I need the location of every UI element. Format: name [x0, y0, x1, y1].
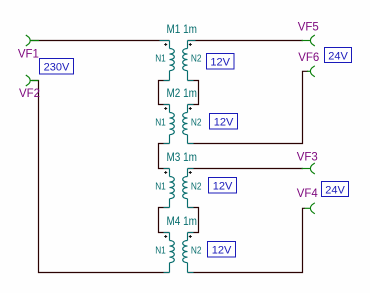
polarity mark + M4 N2: [189, 235, 192, 238]
svg-text:VF4: VF4: [297, 186, 318, 200]
lead stub M3 N2 VF3 wire: [188, 168, 194, 170]
svg-text:M2 1m: M2 1m: [167, 88, 198, 100]
lead stubs M2 bottom: [164, 143, 194, 145]
svg-text:12V: 12V: [213, 181, 233, 193]
svg-text:N2: N2: [191, 246, 202, 257]
svg-text:VF5: VF5: [298, 19, 319, 33]
value 24V (VF5-VF6): [325, 48, 352, 63]
polarity mark + M4 N1: [164, 235, 167, 238]
voltage pin VF2: [26, 75, 30, 86]
lead stub M1 N1 top: [160, 40, 170, 42]
svg-text:N1: N1: [155, 118, 166, 129]
lead stub M1 N2 top: [188, 40, 196, 42]
wire N1 jog M3 to M4 left: [159, 208, 170, 233]
svg-text:N1: N1: [155, 182, 166, 193]
svg-text:N1: N1: [155, 246, 166, 257]
wire VF1 to M1 N1 top: [31, 40, 170, 42]
voltage pin VF4: [310, 203, 314, 214]
value 230V (source VF1-VF2): [40, 59, 74, 75]
wire M1 N2 top to VF5: [188, 40, 304, 42]
wire VF2 riser down and bottom run to M4 N1: [32, 81, 170, 273]
value 12V (M3 secondary): [209, 178, 237, 194]
lead stubs M3 bottom: [164, 207, 194, 209]
wire M4 N2 bottom to VF4 riser: [188, 208, 306, 272]
svg-text:12V: 12V: [214, 117, 234, 129]
transformer M1 secondary winding N2: [187, 41, 189, 49]
voltage pin VF1: [26, 35, 30, 46]
svg-text:N2: N2: [191, 118, 202, 129]
polarity mark + M3 N2: [189, 171, 192, 174]
polarity mark + M2 N2: [189, 107, 192, 110]
wire N2 jog M3 to M4 right: [188, 208, 199, 233]
polarity mark + M1 N2: [189, 43, 192, 46]
transformer M3 primary winding N1: [169, 169, 171, 177]
svg-text:M3 1m: M3 1m: [167, 152, 198, 164]
voltage pin VF3: [310, 163, 314, 174]
wire N2 jog M1 to M2 right: [188, 81, 199, 105]
svg-text:M4 1m: M4 1m: [167, 216, 198, 228]
polarity mark + M2 N1: [164, 107, 167, 110]
polarity mark + M1 N1: [164, 43, 167, 46]
lead stubs M4 bottom: [164, 272, 194, 274]
lead stubs M1 bottom: [164, 80, 194, 82]
transformer M1 primary winding N1: [169, 41, 171, 49]
svg-text:N2: N2: [191, 54, 202, 65]
voltage pin VF5: [310, 35, 314, 46]
value 12V (M1 secondary): [207, 54, 235, 70]
svg-text:N2: N2: [191, 182, 202, 193]
svg-text:VF6: VF6: [298, 50, 319, 64]
svg-text:24V: 24V: [325, 184, 345, 196]
svg-text:VF3: VF3: [297, 149, 318, 163]
wire M3 N2 top to VF3: [188, 168, 304, 170]
svg-text:VF2: VF2: [19, 86, 40, 100]
wire N1 jog M1 to M2 left: [159, 81, 170, 105]
value 24V (VF3-VF4): [322, 182, 349, 197]
svg-text:M1 1m: M1 1m: [167, 24, 198, 36]
lead stubs M4 top: [164, 232, 194, 234]
lead stubs M3 top: [164, 168, 194, 170]
svg-text:N1: N1: [155, 54, 166, 65]
svg-text:24V: 24V: [328, 50, 348, 62]
transformer M4 primary winding N1: [169, 233, 171, 241]
svg-text:VF1: VF1: [18, 46, 39, 60]
transformer M4 secondary winding N2: [187, 233, 189, 241]
svg-text:12V: 12V: [212, 245, 232, 257]
lead stubs M2 top: [164, 104, 194, 106]
transformer M2 primary winding N1: [169, 105, 171, 113]
svg-text:230V: 230V: [44, 62, 70, 74]
value 12V (M4 secondary): [208, 242, 236, 258]
wire N1 jog M2 to M3 left: [159, 144, 170, 169]
value 12V (M2 secondary): [210, 114, 238, 130]
polarity mark + M3 N1: [164, 171, 167, 174]
wire M2 N2 bottom to VF6 riser: [188, 71, 309, 143]
transformer M3 secondary winding N2: [187, 169, 189, 177]
voltage pin VF6: [310, 66, 314, 77]
transformer M2 secondary winding N2: [187, 105, 189, 113]
svg-text:12V: 12V: [210, 57, 230, 69]
